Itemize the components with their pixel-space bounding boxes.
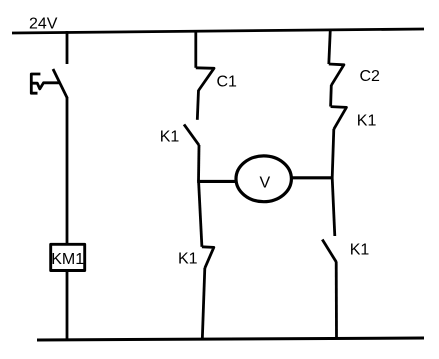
wire (right branch from rail): [329, 30, 331, 65]
wire (coil to bottom rail): [66, 272, 69, 340]
0V return rail: [37, 338, 424, 340]
wire (C1 to K1): [197, 90, 198, 120]
voltmeter V body: [236, 156, 291, 202]
svg-text:KM1: KM1: [51, 251, 84, 268]
relay contact K1 blade (upper middle): [184, 124, 199, 145]
wire (node down, middle branch): [199, 181, 202, 246]
pushbutton S1 actuator (E symbol): [31, 74, 40, 93]
pushbutton S1 contact blade: [53, 69, 67, 98]
contact C2: [329, 64, 344, 85]
wire (lower middle contact to bottom rail): [202, 268, 205, 340]
pushbutton S1 actuator linkage: [32, 83, 59, 89]
relay contact K1 (lower middle): [202, 247, 214, 268]
wire (K1 to node): [197, 145, 200, 181]
relay contact K1 blade (lower right): [322, 240, 336, 262]
wire (lower right contact to bottom rail): [335, 262, 338, 339]
svg-text:C1: C1: [217, 73, 238, 90]
svg-text:K1: K1: [350, 242, 370, 259]
wire (C2 to K1): [329, 85, 332, 107]
svg-text:K1: K1: [160, 128, 180, 145]
wire (switch to coil): [66, 97, 69, 244]
svg-text:K1: K1: [357, 113, 377, 130]
svg-text:K1: K1: [178, 251, 198, 268]
contactor coil KM1 box: [51, 244, 85, 270]
wire (middle branch from rail): [194, 31, 197, 68]
svg-text:24V: 24V: [29, 16, 58, 33]
contact C1: [196, 68, 214, 91]
wire (K1 to node, right): [332, 129, 334, 178]
wire (node down, right branch): [332, 178, 335, 236]
svg-text:C2: C2: [360, 68, 381, 85]
relay contact K1 (upper right): [331, 107, 347, 130]
wire (voltmeter right terminal to node): [292, 176, 334, 179]
wire (left branch from rail): [66, 31, 69, 64]
wire (node to voltmeter left terminal): [197, 180, 235, 183]
24V supply rail: [12, 29, 424, 33]
svg-text:V: V: [260, 174, 271, 191]
